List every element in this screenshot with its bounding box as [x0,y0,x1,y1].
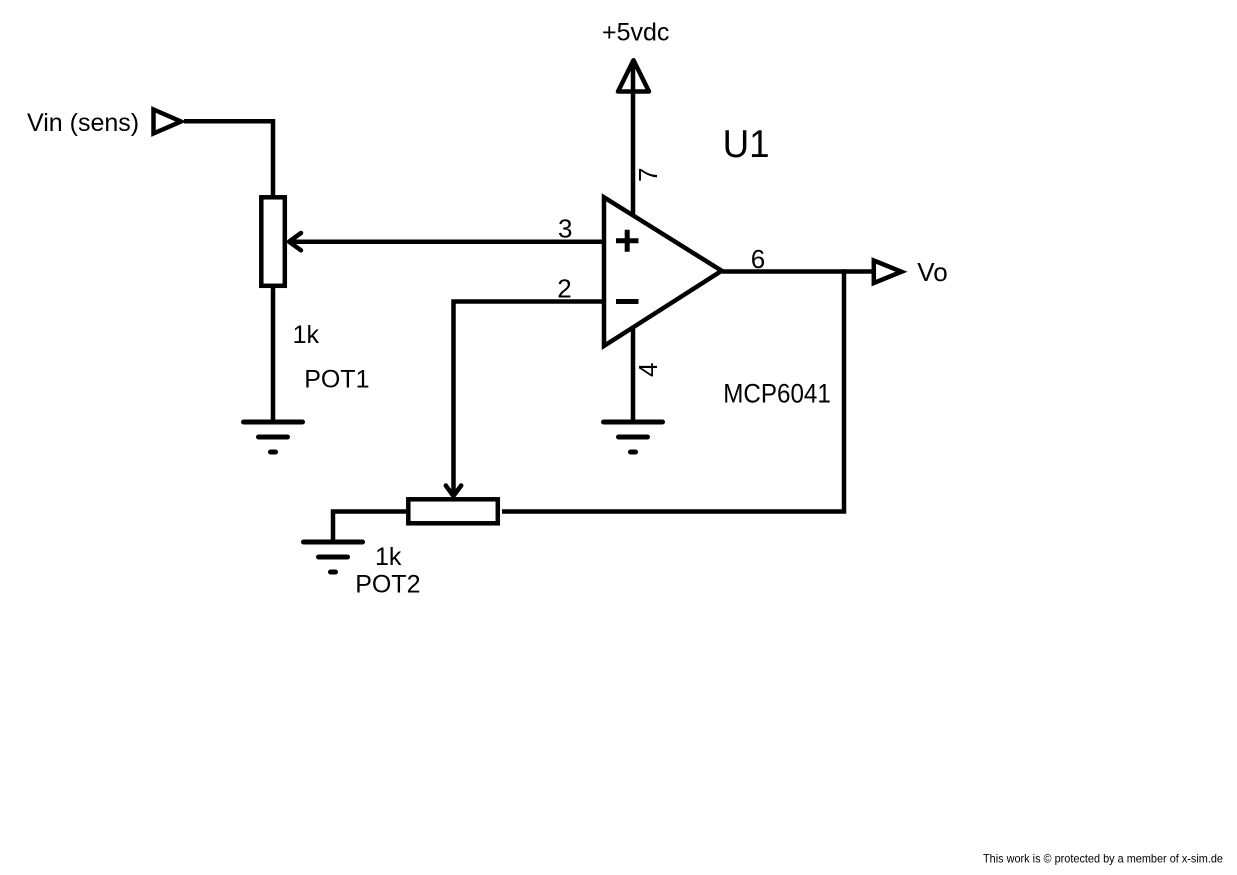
svg-text:1k: 1k [375,543,402,571]
ground G2 under op-amp pin 4 [604,422,663,452]
svg-text:2: 2 [557,273,571,303]
op-amp plus input marking [616,230,639,252]
wire op-amp pin 2 to POT2 wiper [454,302,604,494]
svg-text:POT1: POT1 [304,366,369,394]
svg-text:This work is © protected by a: This work is © protected by a member of … [983,851,1223,865]
ground G3 at POT2 left [304,542,363,572]
wire op-amp pin 4 to ground [631,326,636,420]
output connector triangle Vo [874,261,902,284]
svg-text:+5vdc: +5vdc [602,19,669,47]
svg-text:POT2: POT2 [355,571,420,599]
svg-text:4: 4 [633,363,663,377]
POT1 wiper arrowhead [289,233,301,250]
wire feedback from output node down and left to POT2 right [502,269,844,511]
power arrow symbol +5vdc [618,60,649,91]
svg-text:3: 3 [558,214,572,244]
svg-text:MCP6041: MCP6041 [723,378,831,408]
svg-text:Vo: Vo [917,257,947,287]
op-amp minus input marking [616,299,639,304]
svg-text:Vin (sens): Vin (sens) [27,109,139,137]
wire op-amp output pin 6 to Vo connector [722,269,872,274]
svg-text:7: 7 [633,168,663,182]
potentiometer POT2 body [408,499,498,523]
wire POT2 left to ground [333,512,406,541]
POT2 wiper arrowhead [446,486,461,497]
ground G1 under POT1 [244,422,303,452]
potentiometer POT1 body [261,197,285,285]
wire Vin to POT1 top [184,121,273,197]
input connector triangle Vin [154,110,182,134]
wire +5vdc to op-amp pin 7 [631,60,636,216]
svg-text:1k: 1k [293,321,320,349]
svg-text:U1: U1 [723,123,770,166]
op-amp U1 triangle [604,197,722,346]
wire POT1 wiper to op-amp pin 3 [289,239,604,244]
wire POT1 bottom to ground [271,286,276,420]
